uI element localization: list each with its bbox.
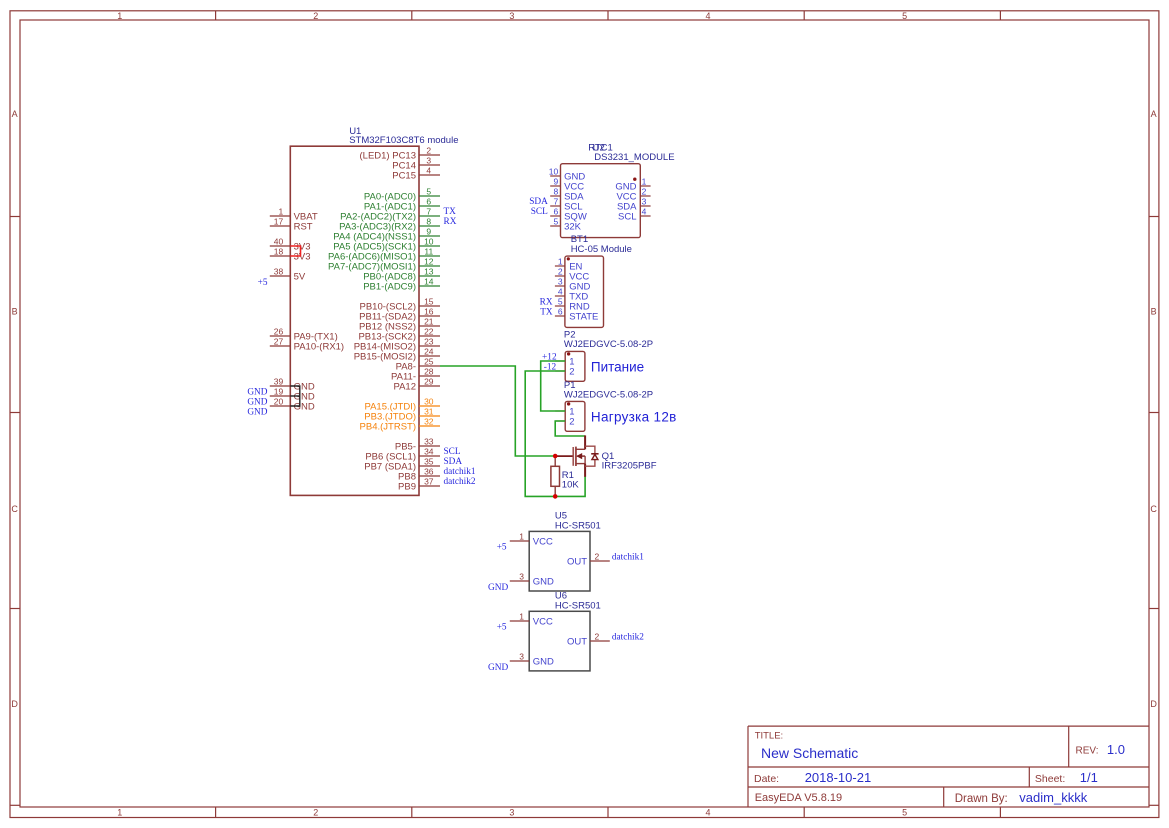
svg-text:RX: RX bbox=[444, 217, 457, 227]
svg-text:3: 3 bbox=[558, 276, 563, 286]
U1 right-side pins with numbers and names bbox=[328, 145, 440, 492]
svg-text:9: 9 bbox=[426, 226, 431, 236]
svg-text:vadim_kkkk: vadim_kkkk bbox=[1019, 790, 1087, 805]
svg-text:SDA: SDA bbox=[529, 197, 548, 207]
svg-text:+5: +5 bbox=[258, 278, 268, 288]
svg-text:SCL: SCL bbox=[618, 212, 636, 223]
svg-text:2: 2 bbox=[426, 145, 431, 155]
svg-text:2: 2 bbox=[642, 186, 647, 196]
frame column numbers bottom bbox=[117, 807, 907, 817]
svg-text:21: 21 bbox=[424, 316, 434, 326]
transistor Q1 IRF3205PBF n-channel MOSFET bbox=[555, 435, 598, 476]
svg-text:+5: +5 bbox=[497, 543, 507, 553]
svg-text:34: 34 bbox=[424, 446, 434, 456]
svg-text:New Schematic: New Schematic bbox=[761, 745, 858, 761]
svg-text:D: D bbox=[11, 699, 18, 709]
P2 pin 1 marker dot bbox=[567, 352, 570, 355]
svg-text:18: 18 bbox=[274, 246, 284, 256]
svg-text:9: 9 bbox=[553, 176, 558, 186]
wire from P2 pin 2 to source/R1 bottom rail bbox=[525, 371, 585, 496]
svg-text:GND: GND bbox=[294, 402, 315, 413]
svg-text:C: C bbox=[1150, 504, 1157, 514]
svg-text:10: 10 bbox=[549, 166, 559, 176]
svg-text:PB4.(JTRST): PB4.(JTRST) bbox=[360, 422, 416, 433]
svg-text:IRF3205PBF: IRF3205PBF bbox=[602, 461, 657, 472]
svg-text:STM32F103C8T6 module: STM32F103C8T6 module bbox=[349, 135, 458, 146]
svg-text:25: 25 bbox=[424, 356, 434, 366]
frame row letters left bbox=[11, 109, 18, 709]
svg-text:2: 2 bbox=[558, 266, 563, 276]
svg-text:7: 7 bbox=[426, 206, 431, 216]
svg-text:4: 4 bbox=[642, 206, 647, 216]
svg-text:1: 1 bbox=[642, 176, 647, 186]
svg-text:2: 2 bbox=[313, 807, 318, 817]
svg-text:33: 33 bbox=[424, 436, 434, 446]
svg-text:4: 4 bbox=[558, 286, 563, 296]
svg-text:PC15: PC15 bbox=[392, 171, 416, 182]
svg-text:11: 11 bbox=[424, 246, 433, 256]
svg-text:B: B bbox=[1151, 307, 1157, 317]
svg-text:1: 1 bbox=[117, 11, 122, 21]
svg-text:Drawn By:: Drawn By: bbox=[955, 793, 1008, 805]
svg-text:TITLE:: TITLE: bbox=[755, 731, 784, 742]
svg-text:3: 3 bbox=[519, 571, 524, 581]
svg-text:HC-05 Module: HC-05 Module bbox=[571, 244, 632, 255]
svg-text:+5: +5 bbox=[497, 623, 507, 633]
svg-text:1: 1 bbox=[278, 206, 283, 216]
U2 pin 1 marker dot bbox=[633, 178, 636, 181]
svg-text:32K: 32K bbox=[564, 222, 582, 233]
svg-text:2018-10-21: 2018-10-21 bbox=[805, 770, 872, 785]
svg-text:TX: TX bbox=[540, 307, 553, 317]
svg-text:5: 5 bbox=[902, 807, 907, 817]
module U2/RTC1 DS3231_MODULE body bbox=[561, 164, 641, 238]
black wire joining U1 pins 39, 19, 20 (GND) bbox=[290, 386, 300, 406]
svg-text:3: 3 bbox=[642, 196, 647, 206]
svg-text:39: 39 bbox=[274, 376, 284, 386]
svg-text:3: 3 bbox=[509, 11, 514, 21]
U2 designator label RTC1 overlapped with U2 bbox=[588, 142, 613, 153]
svg-text:14: 14 bbox=[424, 276, 434, 286]
svg-text:GND: GND bbox=[533, 577, 554, 588]
svg-text:1: 1 bbox=[558, 256, 563, 266]
svg-text:20: 20 bbox=[274, 396, 284, 406]
svg-text:38: 38 bbox=[274, 266, 284, 276]
title block frame bbox=[748, 726, 1149, 807]
wire from P2 pin 1 to P1 pin 1 bbox=[541, 361, 566, 411]
svg-text:23: 23 bbox=[424, 336, 434, 346]
svg-text:5V: 5V bbox=[294, 272, 306, 283]
svg-text:GND: GND bbox=[247, 398, 267, 408]
module U6 HC-SR501 body bbox=[529, 611, 590, 671]
svg-text:SCL: SCL bbox=[444, 447, 461, 457]
svg-text:Нагрузка 12в: Нагрузка 12в bbox=[591, 410, 677, 425]
svg-text:Date:: Date: bbox=[754, 773, 779, 785]
svg-text:datchik2: datchik2 bbox=[612, 633, 644, 643]
svg-text:29: 29 bbox=[424, 376, 434, 386]
svg-text:TX: TX bbox=[444, 207, 457, 217]
svg-text:4: 4 bbox=[705, 807, 710, 817]
svg-text:12: 12 bbox=[424, 256, 434, 266]
wire from P1 pin 2 to Q1 drain bbox=[555, 421, 585, 436]
svg-text:4: 4 bbox=[426, 165, 431, 175]
svg-text:PA10-(RX1): PA10-(RX1) bbox=[294, 342, 345, 353]
svg-text:Питание: Питание bbox=[591, 360, 644, 375]
BT1 pin 1 marker dot bbox=[567, 257, 570, 260]
svg-text:8: 8 bbox=[553, 186, 558, 196]
svg-text:GND: GND bbox=[488, 663, 508, 673]
svg-text:VCC: VCC bbox=[533, 617, 553, 628]
svg-text:D: D bbox=[1150, 699, 1157, 709]
svg-text:1: 1 bbox=[519, 531, 524, 541]
U2 right pins 1,2,3,4 bbox=[615, 176, 650, 222]
U6 pins 1 VCC, 3 GND, 2 OUT bbox=[510, 611, 610, 667]
svg-text:STATE: STATE bbox=[569, 312, 598, 323]
svg-text:13: 13 bbox=[424, 266, 434, 276]
svg-text:6: 6 bbox=[558, 306, 563, 316]
svg-text:2: 2 bbox=[595, 631, 600, 641]
svg-text:RX: RX bbox=[540, 297, 553, 307]
BT1 pins 1-6 bbox=[555, 256, 599, 322]
svg-text:VCC: VCC bbox=[533, 537, 553, 548]
svg-text:3: 3 bbox=[509, 807, 514, 817]
svg-text:RST: RST bbox=[294, 222, 313, 233]
svg-text:HC-SR501: HC-SR501 bbox=[555, 601, 601, 612]
module U5 HC-SR501 body bbox=[529, 531, 590, 591]
svg-text:3: 3 bbox=[519, 651, 524, 661]
svg-text:PB9: PB9 bbox=[398, 482, 416, 493]
svg-text:27: 27 bbox=[274, 336, 284, 346]
svg-text:1: 1 bbox=[117, 807, 122, 817]
svg-text:37: 37 bbox=[424, 476, 434, 486]
svg-text:10K: 10K bbox=[562, 479, 580, 490]
svg-text:32: 32 bbox=[424, 416, 434, 426]
svg-text:Sheet:: Sheet: bbox=[1035, 773, 1065, 785]
svg-text:30: 30 bbox=[424, 396, 434, 406]
svg-text:2: 2 bbox=[569, 417, 574, 428]
svg-text:3: 3 bbox=[426, 155, 431, 165]
frame column numbers top bbox=[117, 11, 907, 21]
module BT1 HC-05 body bbox=[565, 256, 604, 327]
wire from U1 pin 25 PA8 to Q1 gate bbox=[440, 366, 556, 456]
resistor R1 10K bbox=[551, 456, 560, 496]
svg-text:5: 5 bbox=[426, 186, 431, 196]
svg-text:GND: GND bbox=[533, 657, 554, 668]
svg-text:10: 10 bbox=[424, 236, 434, 246]
junction dot at Q1 gate / R1 top bbox=[553, 454, 558, 459]
svg-text:4: 4 bbox=[705, 11, 710, 21]
svg-text:OUT: OUT bbox=[567, 557, 587, 568]
svg-text:6: 6 bbox=[426, 196, 431, 206]
svg-text:SCL: SCL bbox=[531, 207, 548, 217]
svg-text:PA12: PA12 bbox=[393, 382, 416, 393]
svg-text:5: 5 bbox=[558, 296, 563, 306]
P1 pin 1 marker dot bbox=[567, 402, 570, 405]
svg-text:1: 1 bbox=[519, 611, 524, 621]
svg-text:8: 8 bbox=[426, 216, 431, 226]
svg-text:1.0: 1.0 bbox=[1107, 742, 1125, 757]
svg-text:3V3: 3V3 bbox=[294, 252, 311, 263]
svg-text:2: 2 bbox=[569, 367, 574, 378]
svg-text:40: 40 bbox=[274, 236, 284, 246]
red wire joining U1 pins 40 and 18 (3V3) bbox=[290, 246, 300, 256]
svg-text:OUT: OUT bbox=[567, 637, 587, 648]
svg-text:5: 5 bbox=[902, 11, 907, 21]
svg-text:B: B bbox=[12, 307, 18, 317]
svg-text:DS3231_MODULE: DS3231_MODULE bbox=[594, 152, 674, 163]
svg-text:17: 17 bbox=[274, 216, 284, 226]
svg-text:31: 31 bbox=[424, 406, 434, 416]
svg-text:A: A bbox=[1151, 109, 1157, 119]
junction dot at R1 bottom / source rail bbox=[553, 494, 558, 499]
U5 pins 1 VCC, 3 GND, 2 OUT bbox=[510, 531, 610, 587]
svg-text:22: 22 bbox=[424, 326, 434, 336]
svg-text:A: A bbox=[12, 109, 18, 119]
connector P1 WJ2EDGVC-5.08-2P body bbox=[565, 401, 585, 431]
svg-text:REV:: REV: bbox=[1076, 745, 1099, 756]
svg-text:GND: GND bbox=[488, 583, 508, 593]
P2 pins 1,2 bbox=[555, 357, 574, 378]
svg-text:5: 5 bbox=[553, 216, 558, 226]
svg-text:WJ2EDGVC-5.08-2P: WJ2EDGVC-5.08-2P bbox=[564, 389, 653, 400]
svg-text:36: 36 bbox=[424, 466, 434, 476]
svg-text:26: 26 bbox=[274, 326, 284, 336]
svg-text:6: 6 bbox=[553, 206, 558, 216]
svg-text:24: 24 bbox=[424, 346, 434, 356]
svg-text:WJ2EDGVC-5.08-2P: WJ2EDGVC-5.08-2P bbox=[564, 339, 653, 350]
IC U1 STM32F103C8T6 module body bbox=[290, 146, 419, 495]
svg-text:15: 15 bbox=[424, 296, 434, 306]
svg-text:GND: GND bbox=[247, 388, 267, 398]
svg-text:GND: GND bbox=[247, 408, 267, 418]
svg-text:2: 2 bbox=[595, 551, 600, 561]
svg-text:datchik1: datchik1 bbox=[444, 467, 476, 477]
svg-text:16: 16 bbox=[424, 306, 434, 316]
svg-text:35: 35 bbox=[424, 456, 434, 466]
svg-text:2: 2 bbox=[313, 11, 318, 21]
U2 left pins 10,9,8,7,6,5 bbox=[549, 166, 587, 232]
svg-text:HC-SR501: HC-SR501 bbox=[555, 520, 601, 531]
svg-text:28: 28 bbox=[424, 366, 434, 376]
svg-text:C: C bbox=[11, 504, 18, 514]
P1 pins 1,2 bbox=[555, 407, 574, 428]
connector P2 WJ2EDGVC-5.08-2P body bbox=[565, 351, 585, 381]
svg-text:EasyEDA V5.8.19: EasyEDA V5.8.19 bbox=[755, 792, 842, 804]
svg-text:datchik2: datchik2 bbox=[444, 477, 476, 487]
U1 left-side pins with numbers and names bbox=[270, 206, 344, 412]
svg-text:PB1-(ADC9): PB1-(ADC9) bbox=[363, 282, 416, 293]
svg-text:19: 19 bbox=[274, 386, 284, 396]
svg-text:datchik1: datchik1 bbox=[612, 553, 644, 563]
frame row letters right bbox=[1150, 109, 1157, 709]
svg-text:1/1: 1/1 bbox=[1080, 770, 1098, 785]
svg-text:SDA: SDA bbox=[444, 457, 463, 467]
svg-text:7: 7 bbox=[553, 196, 558, 206]
